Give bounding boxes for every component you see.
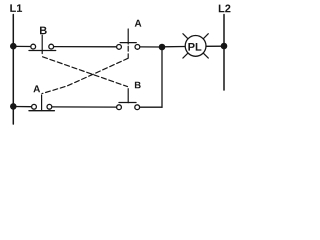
L2 label	[219, 5, 225, 13]
label A (bottom NC pushbutton)	[33, 85, 40, 92]
wire: contact B to riser (bottom rung)	[140, 106, 162, 108]
wire: contact B to contact A (top rung)	[54, 46, 116, 48]
wire: riser from bottom rung up to top rung junction	[161, 47, 163, 107]
wire: contact A to contact B (bottom rung)	[52, 106, 116, 108]
wire: L1 to contact A (bottom rung)	[13, 106, 31, 108]
pushbutton A NC contact (bottom rung)	[29, 100, 54, 111]
pilot light PL	[183, 34, 208, 58]
pushbutton A NO contact (top rung)	[117, 29, 140, 49]
wire: junction to pilot light	[162, 46, 185, 48]
label B (bottom NO pushbutton)	[135, 82, 141, 89]
junction dot: L1 / bottom rung	[10, 103, 17, 110]
label A (top NO pushbutton)	[135, 20, 142, 27]
wire: pilot light to L2	[206, 45, 224, 47]
wire: contact A to junction (top rung)	[140, 46, 162, 48]
L1 power rail	[12, 15, 14, 125]
junction dot: top rung / riser from bottom rung	[159, 44, 166, 51]
L1 label	[10, 4, 16, 12]
mechanical linkage (dashed) between B contacts	[43, 57, 128, 87]
junction dot: L1 / top rung	[10, 43, 17, 50]
wire: L1 to contact B (top rung)	[13, 45, 30, 47]
label B (top NC pushbutton)	[40, 27, 47, 35]
pushbutton B NO contact (bottom rung)	[117, 89, 140, 110]
junction dot: top rung / L2 rail	[221, 43, 228, 50]
pushbutton B NC contact (top rung)	[29, 35, 56, 53]
L2 power rail	[223, 15, 225, 91]
mechanical linkage (dashed) between A contacts	[42, 46, 129, 100]
